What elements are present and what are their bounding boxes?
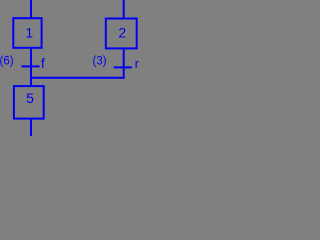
transition T1 bar xyxy=(22,65,40,67)
svg-text:2: 2 xyxy=(118,24,126,40)
svg-text:(3): (3) xyxy=(93,55,107,67)
background canvas xyxy=(0,0,140,136)
svg-text:f: f xyxy=(41,55,45,71)
wire: horizontal link between branches xyxy=(30,77,125,79)
svg-text:1: 1 xyxy=(25,25,33,41)
step 5 box xyxy=(14,86,44,119)
svg-text:5: 5 xyxy=(26,90,34,106)
step 2 box xyxy=(106,19,137,49)
svg-text:(6): (6) xyxy=(0,55,14,67)
svg-text:r: r xyxy=(135,57,139,71)
transition T2 bar xyxy=(114,66,132,68)
step 1 box xyxy=(13,18,41,48)
wire: right trunk vertical xyxy=(123,0,125,79)
wire: left trunk vertical xyxy=(30,0,32,136)
